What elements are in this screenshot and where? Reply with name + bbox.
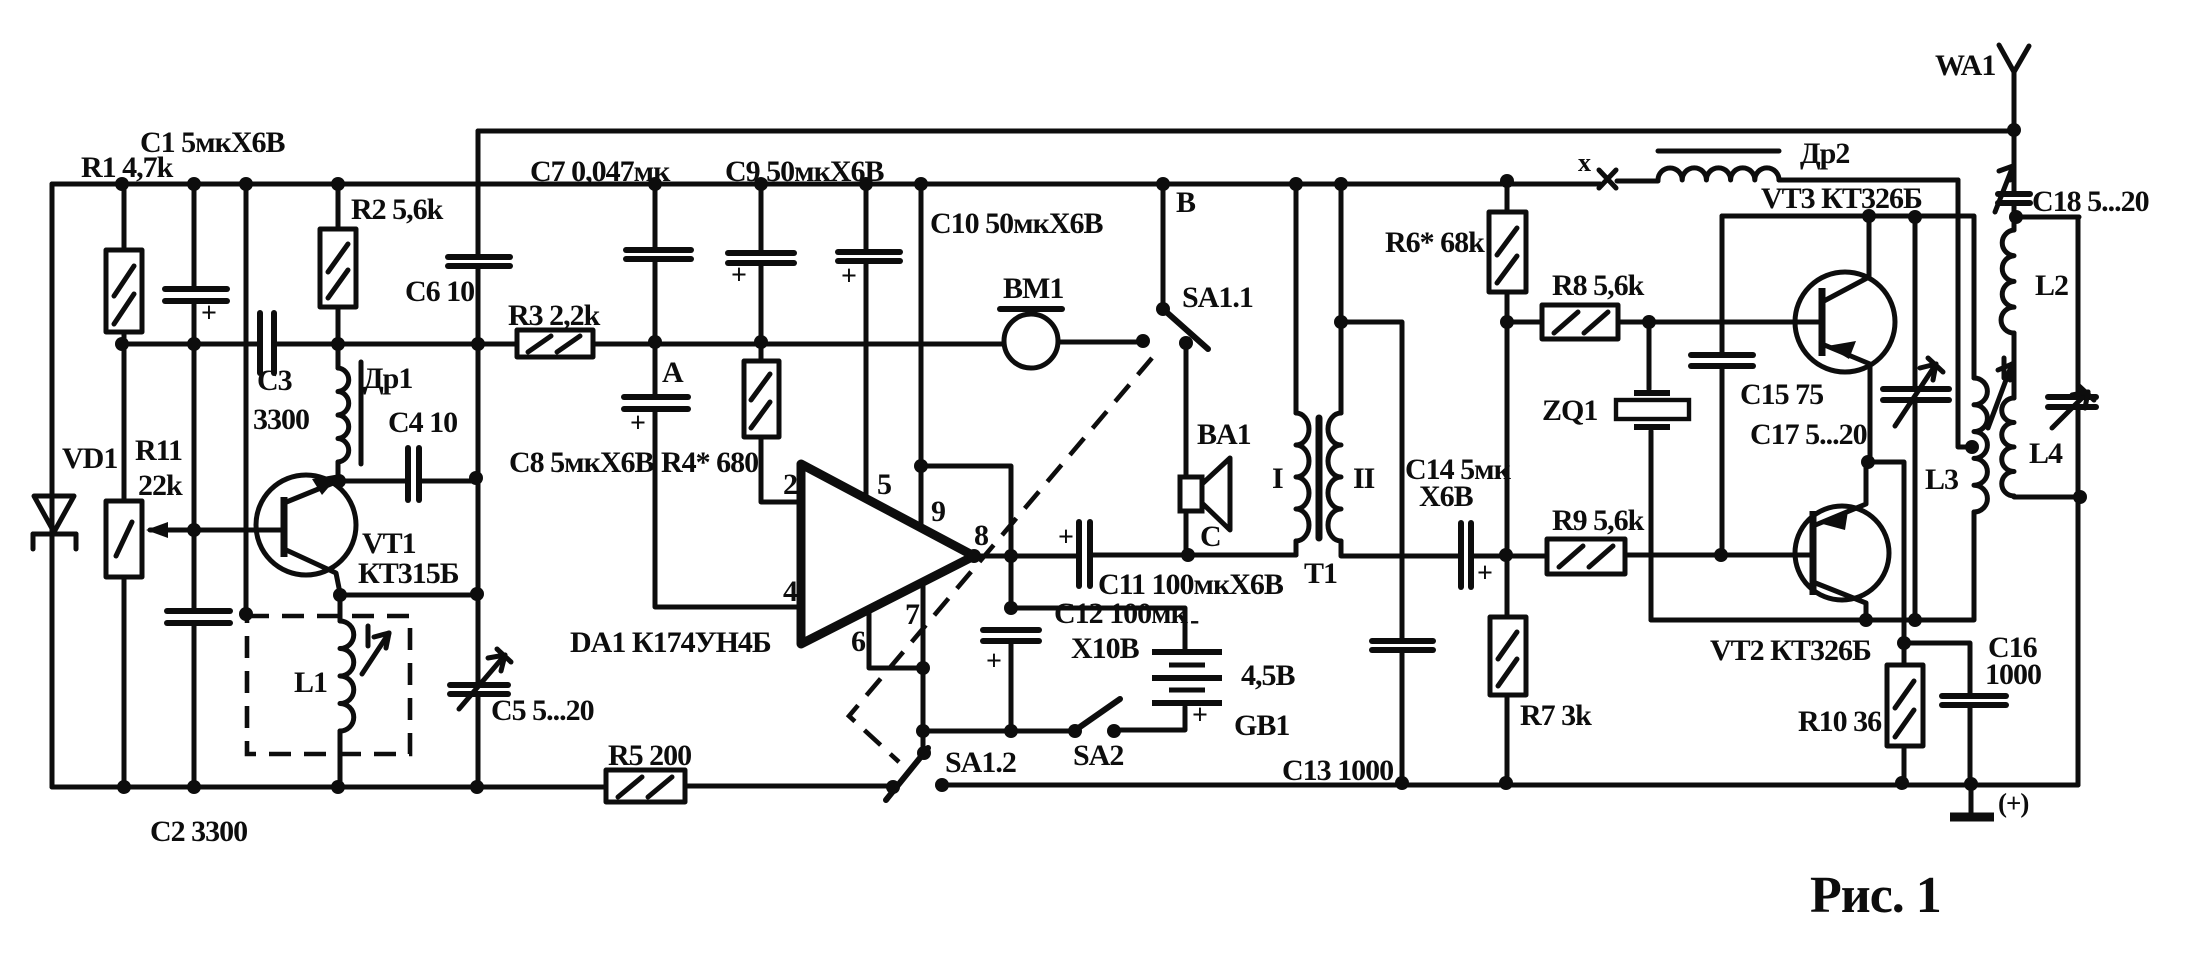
svg-text:А: А [662, 356, 684, 389]
svg-text:C17 5...20: C17 5...20 [1750, 418, 1867, 451]
svg-text:SA1.2: SA1.2 [945, 746, 1016, 779]
svg-text:L4: L4 [2029, 437, 2063, 470]
svg-text:SA2: SA2 [1073, 739, 1123, 772]
svg-text:Х6В: Х6В [1419, 480, 1474, 513]
svg-text:+: + [630, 408, 645, 439]
svg-text:II: II [1353, 462, 1375, 495]
svg-text:VT1: VT1 [362, 527, 416, 560]
svg-text:+: + [1192, 700, 1207, 731]
svg-text:С7 0,047мк: С7 0,047мк [530, 155, 671, 188]
svg-text:С9 50мкХ6В: С9 50мкХ6В [725, 155, 885, 188]
svg-text:R11: R11 [135, 434, 182, 467]
svg-text:BA1: BA1 [1197, 418, 1251, 451]
svg-text:Др2: Др2 [1800, 137, 1849, 170]
svg-text:(+): (+) [1998, 788, 2028, 818]
svg-text:КТ315Б: КТ315Б [358, 557, 459, 590]
svg-text:+: + [201, 298, 216, 329]
svg-text:4,5В: 4,5В [1241, 659, 1296, 692]
svg-text:Т1: Т1 [1304, 557, 1337, 590]
svg-text:R8 5,6k: R8 5,6k [1552, 269, 1645, 302]
svg-text:ZQ1: ZQ1 [1542, 394, 1597, 427]
svg-text:R2 5,6k: R2 5,6k [351, 193, 444, 226]
svg-text:22k: 22k [138, 469, 183, 502]
svg-text:L3: L3 [1925, 463, 1958, 496]
svg-text:Х10В: Х10В [1071, 632, 1140, 665]
svg-text:С3: С3 [257, 364, 292, 397]
svg-text:VT3 КТ326Б: VT3 КТ326Б [1761, 182, 1922, 215]
svg-text:1000: 1000 [1985, 658, 2041, 691]
svg-text:+: + [731, 260, 746, 291]
svg-text:С10 50мкХ6В: С10 50мкХ6В [930, 207, 1104, 240]
svg-text:R4* 680: R4* 680 [661, 446, 758, 479]
svg-text:R3 2,2k: R3 2,2k [508, 299, 601, 332]
svg-text:Рис. 1: Рис. 1 [1810, 867, 1941, 924]
svg-text:VT2 КТ326Б: VT2 КТ326Б [1710, 634, 1871, 667]
svg-text:I: I [1272, 462, 1283, 495]
svg-text:+: + [1477, 558, 1492, 589]
svg-text:С5 5...20: С5 5...20 [491, 694, 594, 727]
svg-text:2: 2 [783, 468, 797, 501]
svg-text:x: x [1578, 148, 1591, 177]
svg-text:С2 3300: С2 3300 [150, 815, 247, 848]
svg-text:6: 6 [851, 625, 866, 658]
svg-text:С8 5мкХ6В: С8 5мкХ6В [509, 446, 655, 479]
svg-text:R6* 68k: R6* 68k [1385, 226, 1485, 259]
svg-text:В: В [1176, 186, 1196, 219]
svg-text:С13 1000: С13 1000 [1282, 754, 1393, 787]
svg-text:+: + [841, 261, 856, 292]
svg-text:R10 36: R10 36 [1798, 705, 1882, 738]
svg-text:R9 5,6k: R9 5,6k [1552, 504, 1645, 537]
svg-text:С6 10: С6 10 [405, 275, 474, 308]
svg-text:С18 5...20: С18 5...20 [2032, 185, 2149, 218]
svg-text:GB1: GB1 [1234, 709, 1289, 742]
svg-text:4: 4 [783, 575, 798, 608]
svg-text:C15 75: C15 75 [1740, 378, 1823, 411]
svg-text:L1: L1 [294, 666, 327, 699]
svg-text:-: - [1190, 605, 1199, 636]
svg-text:5: 5 [877, 468, 891, 501]
svg-text:R7 3k: R7 3k [1520, 699, 1592, 732]
svg-text:9: 9 [931, 495, 945, 528]
svg-text:DA1 К174УН4Б: DA1 К174УН4Б [570, 626, 771, 659]
svg-text:R5 200: R5 200 [608, 739, 691, 772]
svg-text:С: С [1200, 520, 1221, 553]
svg-text:3300: 3300 [253, 403, 309, 436]
svg-text:VD1: VD1 [62, 442, 117, 475]
svg-text:8: 8 [974, 519, 988, 552]
svg-text:+: + [986, 646, 1001, 677]
svg-text:С12 100мк: С12 100мк [1054, 597, 1189, 630]
svg-text:+: + [1058, 522, 1073, 553]
svg-text:WA1: WA1 [1935, 49, 1995, 82]
svg-text:Др1: Др1 [363, 362, 412, 395]
svg-text:С4 10: С4 10 [388, 406, 457, 439]
svg-text:SA1.1: SA1.1 [1182, 281, 1253, 314]
svg-text:L2: L2 [2035, 269, 2068, 302]
svg-text:R1 4,7k: R1 4,7k [81, 151, 174, 184]
svg-text:7: 7 [905, 598, 920, 631]
svg-text:BM1: BM1 [1003, 272, 1063, 305]
